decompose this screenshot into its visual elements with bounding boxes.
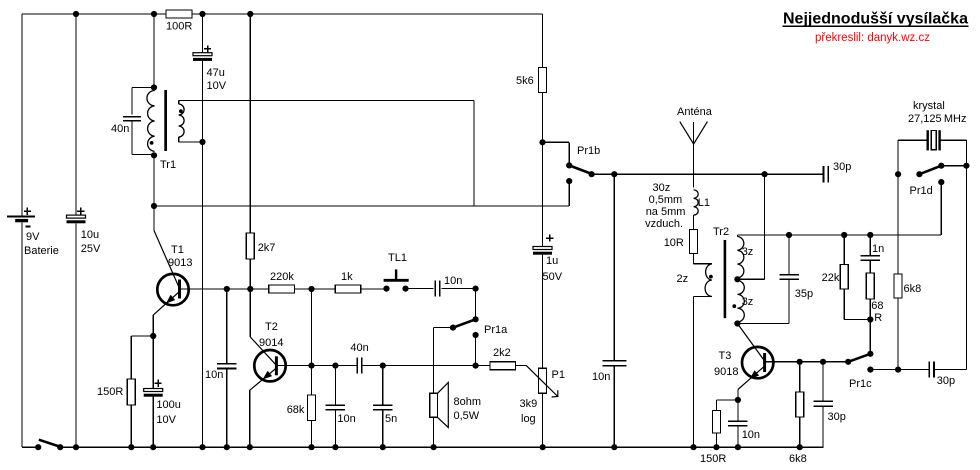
svg-text:T2: T2 (265, 321, 278, 333)
resistor 2k2 (490, 362, 516, 370)
svg-text:9018: 9018 (714, 366, 738, 378)
svg-text:T3: T3 (719, 350, 732, 362)
svg-text:TL1: TL1 (388, 252, 407, 264)
node ground 10u (73, 444, 79, 450)
wire Pr1b feed (543, 141, 570, 143)
svg-text:Baterie: Baterie (24, 245, 59, 257)
resistor 5k6 (539, 67, 547, 92)
antenna symbol (693, 122, 695, 187)
wire battery negative lead (21, 222, 23, 447)
node junction 5k6/Pr1b/1u (539, 139, 545, 145)
node T1 emitter junction (150, 333, 156, 339)
svg-text:P1: P1 (552, 369, 565, 381)
wire 10n (ant) to ground (613, 366, 615, 448)
capacitor 30p (coupling) (823, 166, 825, 182)
wire 1n top lead (869, 235, 871, 256)
svg-text:Nejjednodušší vysílačka: Nejjednodušší vysílačka (783, 11, 968, 28)
transistor T1 circle (157, 274, 188, 305)
node junction 6k8 lower rail (895, 367, 901, 373)
node ground 47u line (199, 444, 205, 450)
wire Pr1a upper drop (475, 289, 477, 320)
svg-text:1u: 1u (546, 255, 558, 267)
resistor 22k (840, 265, 848, 290)
wire top rail corner to 5k6 (542, 14, 544, 67)
wire 10n drop (226, 289, 228, 364)
wire battery positive lead (21, 14, 23, 217)
wire 150R (T3) to ground (715, 433, 717, 447)
capacitor 100u lead (152, 336, 154, 389)
svg-text:10n: 10n (205, 369, 223, 381)
node junction 10n antenna line (611, 171, 617, 177)
resistor 1k (335, 285, 360, 293)
wire 30p (T3) drop (822, 362, 824, 402)
wire 220k left lead (250, 288, 268, 290)
potentiometer P1 body (539, 368, 547, 393)
capacitor 40n (Tr1 tank) (123, 116, 141, 118)
svg-text:10n: 10n (742, 429, 760, 441)
wire crystal left lead (897, 140, 899, 174)
wire bottom ground rail segment B (60, 446, 823, 448)
svg-text:Pr1d: Pr1d (910, 185, 933, 197)
resistor 150R (T1) (127, 379, 135, 405)
svg-text:L1: L1 (698, 197, 710, 209)
transistor T1 base bar (178, 280, 181, 299)
wire T2 base diagonal (250, 337, 276, 365)
wire 150R to ground (130, 405, 132, 447)
node ground 68k (308, 444, 314, 450)
wire 10u lower lead (75, 223, 77, 447)
wire 6k8 (lower) drop (799, 362, 801, 392)
svg-text:47u: 47u (207, 67, 225, 79)
svg-text:150R: 150R (700, 453, 726, 465)
svg-text:2k7: 2k7 (258, 242, 276, 254)
transformer Tr2 core (724, 240, 727, 318)
switch Pr1a lever (453, 319, 476, 327)
node Tr1 secondary phase dot (179, 109, 183, 113)
wire Pr1d lower drop (940, 182, 942, 235)
wire 2k7 line (249, 14, 251, 233)
potentiometer P1 wiper arrow (526, 366, 558, 397)
switch Pr1a pivot (450, 325, 456, 331)
resistor 2k7 (246, 233, 254, 259)
svg-text:Pr1c: Pr1c (849, 378, 872, 390)
switch Pr1b lower contact (566, 178, 572, 184)
capacitor 10n (T2) (326, 404, 346, 406)
capacitor 10n (mic line) (434, 281, 436, 297)
node T2 collector 10n (332, 363, 338, 369)
node junction battery/10u (73, 11, 79, 17)
wire 1u upper lead (542, 142, 544, 246)
wire 35p top lead (788, 235, 790, 275)
node Tr2 center tap (734, 276, 740, 282)
wire Pr1c lower rail (870, 369, 929, 371)
node ground 6k8 (797, 444, 803, 450)
node Tr1 primary top (151, 84, 157, 90)
svg-text:100R: 100R (166, 21, 192, 33)
inductor Tr1 primary winding (147, 91, 155, 152)
node junction 22k/68R bottom (867, 316, 873, 322)
capacitor 5n (373, 404, 393, 406)
svg-text:překreslil: danyk.wz.cz: překreslil: danyk.wz.cz (815, 32, 930, 44)
wire to Pr1c upper contact (869, 320, 871, 354)
wire top supply rail left segment (22, 13, 166, 15)
wire T2 emitter to ground (249, 390, 251, 447)
svg-text:krystal: krystal (913, 100, 945, 112)
resistor 6k8 (upper) (894, 274, 902, 298)
switch Pr1c upper contact (867, 351, 873, 357)
wire T1 emitter diagonal (153, 292, 179, 316)
resistor 68k (308, 395, 316, 421)
node ground speaker (431, 444, 437, 450)
switch Pr1d upper contact (938, 163, 944, 169)
svg-text:9V: 9V (26, 231, 40, 243)
node junction antenna rail / center tap (762, 171, 768, 177)
node ground 10n T2 (332, 444, 338, 450)
wire 68k drop (311, 366, 313, 395)
svg-text:150R: 150R (97, 386, 123, 398)
wire top supply rail right segment (192, 13, 543, 15)
wire T3 collector rail (765, 361, 849, 363)
svg-text:40n: 40n (111, 123, 129, 135)
capacitor 30p (output) (928, 362, 930, 378)
switch Pr1a upper contact (473, 316, 479, 322)
wire 68k link up (311, 289, 313, 366)
wire Pr1a pivot to speaker (434, 327, 453, 329)
wire 47u lower lead (202, 61, 204, 447)
wire 220k right lead (295, 288, 336, 290)
node 3z lower phase dot (732, 304, 736, 308)
wire T1 base drop (153, 206, 155, 231)
node Tr1 primary phase dot (150, 141, 154, 145)
svg-text:5n: 5n (385, 413, 397, 425)
svg-text:Tr1: Tr1 (160, 159, 176, 171)
wire 6k8 top lead (897, 174, 899, 274)
inductor Tr2 2z winding (705, 264, 712, 297)
wire T2 emitter diagonal (250, 368, 277, 390)
node junction 35p top (786, 232, 792, 238)
capacitor 100u 10V (144, 389, 163, 392)
wire 10n (T2) drop (334, 366, 336, 405)
svg-text:Pr1a: Pr1a (484, 324, 508, 336)
wire T2 base drop (249, 289, 251, 337)
switch Pr1d lever (919, 166, 941, 175)
wire 68k to ground (311, 421, 313, 448)
svg-text:Tr2: Tr2 (713, 226, 729, 238)
svg-text:R: R (874, 312, 882, 324)
wire crystal right lead (940, 139, 967, 141)
wire antenna rail (592, 173, 824, 175)
node 47u line junction (199, 139, 205, 145)
svg-text:68k: 68k (287, 404, 305, 416)
svg-text:10n: 10n (337, 413, 355, 425)
resistor 6k8 (lower) (796, 392, 804, 417)
svg-text:0,5W: 0,5W (454, 410, 480, 422)
transistor T3 circle (742, 347, 773, 378)
svg-text:3k9: 3k9 (520, 398, 538, 410)
node junction 47u top (199, 11, 205, 17)
wire 68R bottom lead (869, 299, 871, 320)
svg-text:10u: 10u (81, 229, 99, 241)
speaker LS1 (430, 393, 438, 417)
switch Pr1c lower contact (867, 367, 873, 373)
svg-text:220k: 220k (270, 271, 294, 283)
svg-text:30p: 30p (828, 411, 846, 423)
svg-text:100u: 100u (156, 399, 180, 411)
svg-text:1n: 1n (872, 243, 884, 255)
wire T1 collector (180, 288, 251, 290)
switch power contact right (57, 444, 63, 450)
wire T3 emitter diagonal (738, 366, 765, 390)
svg-text:Anténa: Anténa (677, 106, 713, 118)
capacitor 30p (T3) (813, 400, 833, 402)
inductor Tr2 3z upper winding (736, 235, 738, 237)
node Tr2 bottom tap (734, 320, 740, 326)
svg-text:9014: 9014 (259, 337, 283, 349)
node junction crystal left (895, 171, 901, 177)
wire Tr1 top lead (153, 14, 155, 88)
wire T1 emitter lead (152, 315, 154, 336)
wire Pr1a lower drop (475, 335, 477, 366)
svg-text:10R: 10R (664, 237, 684, 249)
wire Tr1 secondary bottom (179, 141, 203, 143)
svg-text:6k8: 6k8 (904, 283, 922, 295)
svg-text:6k8: 6k8 (789, 453, 807, 465)
switch Pr1d lower contact (938, 179, 944, 185)
capacitor 1n (861, 255, 881, 257)
transistor T2 base bar (275, 356, 278, 375)
node ground P1 (540, 444, 546, 450)
svg-text:9013: 9013 (168, 257, 192, 269)
wire 6k8 bottom lead (897, 298, 899, 370)
switch Pr1b lever (569, 165, 591, 174)
svg-text:22k: 22k (822, 272, 840, 284)
wire 5n to ground (382, 410, 384, 447)
svg-text:1k: 1k (341, 271, 353, 283)
inductor Tr2 3z lower winding (737, 281, 744, 322)
resistor 150R (T3) (712, 411, 720, 434)
wire 1k to TL1 (361, 288, 387, 290)
node ground 10n T3 (735, 444, 741, 450)
svg-text:10V: 10V (156, 414, 176, 426)
resistor 220k (269, 285, 295, 293)
transistor T2 circle (254, 350, 285, 381)
wire 22k top lead (843, 235, 845, 265)
wire 10n to Pr1a (442, 288, 476, 290)
inductor Tr1 secondary winding (178, 101, 180, 105)
svg-text:10n: 10n (444, 275, 462, 287)
wire 2k7 to collector node (249, 259, 251, 289)
switch Pr1b pivot (589, 171, 595, 177)
node ground 5n (380, 444, 386, 450)
wire T2 collector rail left (276, 365, 357, 367)
capacitor 47u 10V (193, 53, 212, 56)
wire Tr2 top rail (737, 234, 941, 236)
svg-text:35p: 35p (795, 288, 813, 300)
wire 40n loop bottom (131, 121, 133, 155)
transistor T2 emitter arrow (263, 371, 273, 380)
node junction 5n (380, 363, 386, 369)
svg-text:40n: 40n (350, 342, 368, 354)
svg-text:5k6: 5k6 (516, 75, 534, 87)
node Pr1a top corner (473, 286, 479, 292)
wire 6k8 (lower) to ground (799, 417, 801, 447)
wire right side vertical (965, 166, 967, 370)
wire 1n to 68R (869, 260, 871, 273)
transistor T1 emitter arrow (166, 295, 175, 304)
switch Pr1a lower contact (473, 332, 479, 338)
wire 10n to ground (226, 369, 228, 448)
wire to 150R (131, 335, 153, 337)
node junction 22k top (841, 232, 847, 238)
wire Tr1 secondary top loop (179, 100, 474, 102)
capacitor 10u wire upper (75, 14, 77, 215)
wire T3 base diagonal (737, 324, 764, 362)
switch Pr1b upper contact (566, 162, 572, 168)
capacitor 47u wire upper (202, 14, 204, 53)
wire 2k2 to pot wiper (516, 365, 527, 367)
wire 30p output to right vertical (934, 369, 967, 371)
svg-text:27,125 MHz: 27,125 MHz (908, 113, 966, 125)
wire T3 emitter lead (737, 390, 739, 400)
switch power lever (39, 440, 59, 447)
wire 40n to 5n node (362, 365, 490, 367)
wire 1u to P1 (542, 255, 544, 369)
transistor T3 emitter arrow (750, 370, 760, 379)
svg-text:30z: 30z (653, 182, 671, 194)
node junction crystal right (963, 163, 969, 169)
wire 30p (T3) to ground (822, 406, 824, 447)
node ground 150R T3 (713, 444, 719, 450)
wire bottom tap to 35p (737, 323, 789, 325)
svg-text:30p: 30p (937, 375, 955, 387)
inductor L1 (694, 190, 699, 215)
wire Tr1 bottom to feedback rail (153, 155, 155, 206)
capacitor 1u 50V (533, 247, 552, 250)
svg-text:2z: 2z (677, 273, 689, 285)
wire 22k bottom jog (843, 289, 845, 320)
svg-text:3z: 3z (742, 246, 754, 258)
resistor 68R (866, 273, 874, 299)
wire T1 base diagonal (154, 231, 180, 289)
wire Pr1b lower to feedback rail (568, 181, 570, 206)
svg-text:T1: T1 (171, 244, 184, 256)
node ground 2z (690, 444, 696, 450)
node ground 10n T1 (224, 444, 230, 450)
node junction 2k7 line top (247, 11, 253, 17)
switch Pr1c lever (848, 354, 870, 362)
wire P1 to ground (542, 393, 544, 447)
transformer Tr1 core (164, 90, 167, 151)
resistor 10R (689, 230, 697, 254)
node T2 collector 68k (308, 363, 314, 369)
svg-text:log: log (521, 413, 536, 425)
wire TL1 to 10n (406, 288, 434, 290)
svg-text:8ohm: 8ohm (454, 396, 482, 408)
svg-text:50V: 50V (543, 271, 563, 283)
node T3 collector 30p (820, 359, 826, 365)
switch Pr1d pivot (916, 171, 922, 177)
switch power contact left (35, 444, 41, 450)
crystal X1 27.125MHz (927, 130, 929, 150)
svg-text:10n: 10n (592, 371, 610, 383)
svg-text:vzduch.: vzduch. (645, 218, 683, 230)
capacitor 10n (T3) (728, 420, 748, 422)
svg-text:25V: 25V (81, 243, 101, 255)
svg-text:30p: 30p (833, 161, 851, 173)
node T3 collector 6k8 (797, 359, 803, 365)
wire 10n (T3) to ground (737, 426, 739, 447)
svg-text:2k2: 2k2 (493, 347, 511, 359)
wire to 150R (T3) (716, 399, 738, 401)
node junction Tr1 top (151, 11, 157, 17)
node ground 150R (128, 444, 134, 450)
node ground 100u (150, 444, 156, 450)
battery B1 9V (7, 216, 35, 218)
capacitor 40n (coupling) (356, 358, 358, 374)
svg-text:10V: 10V (207, 80, 227, 92)
node junction 1n top (867, 232, 873, 238)
node ground T2 emitter (247, 444, 253, 450)
pushbutton TL1 (383, 286, 389, 292)
node Tr1 primary bottom (151, 152, 157, 158)
wire 2z to ground (694, 296, 712, 298)
wire center tap to antenna rail (737, 278, 764, 280)
svg-text:3z: 3z (742, 296, 754, 308)
wire 10n (ant) drop (613, 174, 615, 361)
wire 10n (T2) to ground (334, 410, 336, 447)
wire 100u to ground (152, 397, 154, 448)
node T3 emitter junction (735, 397, 741, 403)
node T1 collector 10n (224, 286, 230, 292)
wire speaker to ground (433, 417, 435, 447)
svg-text:68: 68 (871, 300, 883, 312)
capacitor 35p (779, 274, 799, 276)
capacitor 10n (T1) (217, 363, 237, 365)
svg-text:0,5mm: 0,5mm (649, 194, 683, 206)
capacitor 10u 25V (67, 215, 86, 218)
switch Pr1c pivot (845, 359, 851, 365)
capacitor 10n (ant) (602, 360, 626, 362)
wire 5k6 lower lead (542, 92, 544, 142)
wire feedback rail y206 (154, 205, 569, 207)
node junction 2k7/220k (247, 286, 253, 292)
svg-text:Pr1b: Pr1b (577, 145, 600, 157)
node junction 220k/1k (308, 286, 314, 292)
wire 5n drop (382, 366, 384, 405)
wire Pr1d contact to crystal (941, 165, 966, 167)
node 2z phase dot (709, 275, 713, 279)
wire bottom ground rail segment A (22, 446, 38, 448)
wire L1 to 10R (693, 215, 695, 230)
node ground 10n ant (611, 444, 617, 450)
node junction 2k2 rail (473, 363, 479, 369)
svg-text:na 5mm: na 5mm (646, 206, 686, 218)
transistor T3 base bar (763, 353, 766, 372)
wire 10R to 2z coil (692, 254, 694, 264)
capacitor 10n (T3) leads (737, 400, 739, 421)
resistor 100R (166, 10, 192, 18)
wire 40n loop top (132, 87, 154, 89)
node feedback rail left (151, 203, 157, 209)
